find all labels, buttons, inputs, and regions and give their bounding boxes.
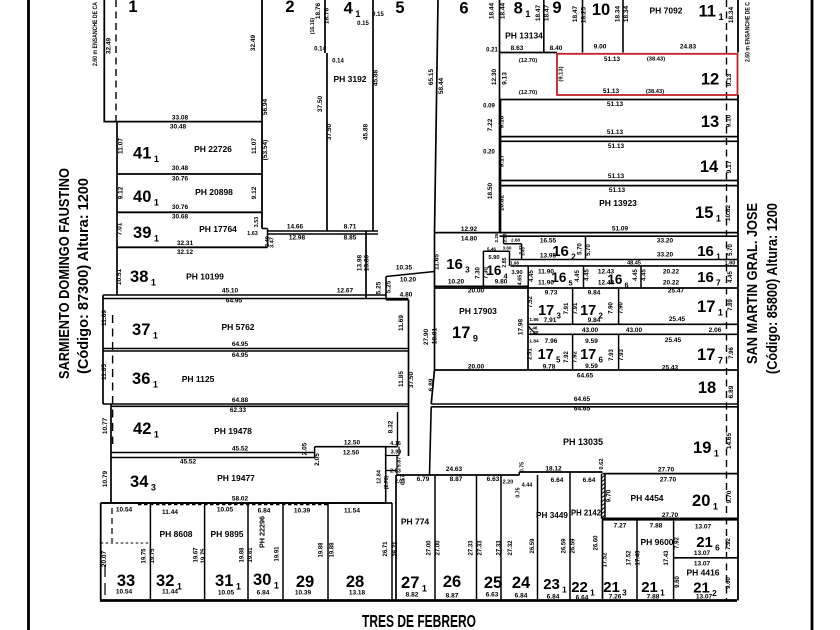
svg-text:13.07: 13.07 [695, 524, 712, 531]
svg-text:0.62: 0.62 [599, 458, 605, 469]
svg-text:5.70: 5.70 [586, 244, 592, 256]
svg-text:7.30: 7.30 [484, 267, 490, 279]
svg-text:(38.43): (38.43) [646, 89, 664, 95]
svg-text:43.00: 43.00 [582, 327, 599, 334]
svg-text:PH 13035: PH 13035 [563, 437, 603, 447]
svg-text:6.64: 6.64 [551, 477, 564, 484]
svg-text:10.77: 10.77 [102, 417, 109, 434]
svg-text:6.63: 6.63 [487, 476, 500, 483]
svg-text:PH 10199: PH 10199 [186, 272, 224, 282]
svg-text:32.49: 32.49 [250, 34, 257, 51]
svg-text:11.85: 11.85 [398, 371, 405, 387]
svg-text:5.90: 5.90 [488, 255, 499, 261]
svg-text:7.96: 7.96 [729, 347, 735, 359]
svg-text:2.83: 2.83 [390, 469, 401, 475]
svg-text:26.71: 26.71 [393, 541, 399, 557]
svg-text:2.06: 2.06 [709, 327, 722, 334]
svg-text:20.00: 20.00 [468, 288, 485, 295]
svg-text:4.45: 4.45 [575, 270, 581, 282]
svg-text:12.50: 12.50 [343, 450, 360, 457]
svg-text:12.67: 12.67 [337, 288, 354, 295]
svg-text:27.33: 27.33 [497, 540, 503, 556]
svg-text:18: 18 [698, 379, 716, 397]
svg-text:8.71: 8.71 [344, 224, 357, 231]
svg-text:62.33: 62.33 [230, 407, 247, 414]
svg-text:PH 22726: PH 22726 [194, 144, 232, 154]
svg-text:9: 9 [552, 0, 561, 17]
svg-text:7.89: 7.89 [728, 299, 734, 311]
svg-text:12.84: 12.84 [377, 469, 383, 484]
svg-text:18.44: 18.44 [500, 2, 507, 19]
svg-text:27.70: 27.70 [662, 512, 679, 519]
svg-text:PH 5762: PH 5762 [221, 322, 254, 332]
svg-text:30.76: 30.76 [172, 204, 189, 211]
svg-text:7.92: 7.92 [726, 538, 732, 550]
svg-text:3.47: 3.47 [270, 237, 276, 248]
svg-text:17.43: 17.43 [636, 550, 642, 566]
svg-text:19.75: 19.75 [142, 548, 148, 564]
svg-text:30.48: 30.48 [172, 165, 189, 172]
svg-text:13.98: 13.98 [357, 254, 364, 271]
svg-text:27.00: 27.00 [436, 540, 442, 556]
svg-text:6: 6 [459, 0, 468, 18]
svg-text:13.07: 13.07 [694, 561, 711, 568]
svg-text:11.69: 11.69 [398, 315, 405, 331]
svg-text:2.20: 2.20 [503, 480, 514, 486]
svg-text:8.82: 8.82 [406, 592, 419, 599]
svg-text:19.88: 19.88 [330, 542, 336, 558]
svg-text:7.22: 7.22 [487, 118, 494, 131]
svg-text:18.44: 18.44 [489, 2, 496, 19]
svg-text:19.67: 19.67 [194, 547, 200, 563]
svg-text:(12.70): (12.70) [519, 90, 537, 96]
svg-text:20.22: 20.22 [663, 280, 680, 287]
svg-text:51.13: 51.13 [609, 187, 626, 194]
svg-text:6.63: 6.63 [486, 592, 499, 599]
svg-text:32.12: 32.12 [177, 249, 194, 256]
svg-text:PH 19478: PH 19478 [214, 426, 252, 436]
svg-text:PH 17903: PH 17903 [459, 306, 497, 316]
svg-text:26: 26 [443, 573, 461, 591]
svg-text:9.73: 9.73 [545, 290, 558, 297]
svg-text:10.51: 10.51 [116, 268, 123, 285]
svg-text:9.70: 9.70 [606, 489, 613, 502]
svg-text:(9.13): (9.13) [559, 66, 565, 81]
svg-text:9.12: 9.12 [118, 186, 125, 199]
svg-text:4.16: 4.16 [390, 441, 401, 447]
svg-text:12: 12 [701, 71, 719, 89]
svg-text:9.10: 9.10 [499, 115, 506, 128]
svg-text:6.84: 6.84 [258, 508, 271, 515]
svg-text:7.90: 7.90 [609, 302, 615, 314]
svg-text:26.71: 26.71 [383, 541, 389, 557]
svg-text:33: 33 [117, 572, 135, 590]
svg-text:13.07: 13.07 [694, 550, 711, 557]
svg-text:2: 2 [285, 0, 294, 16]
svg-text:8.32: 8.32 [388, 420, 395, 433]
svg-text:3.53: 3.53 [254, 217, 260, 228]
svg-text:7.52: 7.52 [528, 296, 534, 308]
svg-text:PH 13923: PH 13923 [599, 198, 637, 208]
svg-text:10.82: 10.82 [725, 204, 732, 221]
svg-text:6.84: 6.84 [547, 594, 560, 601]
svg-text:0.14: 0.14 [314, 47, 326, 53]
svg-text:8.85: 8.85 [344, 235, 357, 242]
svg-text:25.45: 25.45 [665, 337, 682, 344]
svg-text:SARMIENTO DOMINGO FAUSTINO: SARMIENTO DOMINGO FAUSTINO [57, 168, 73, 379]
svg-text:PH 17764: PH 17764 [199, 224, 237, 234]
svg-text:45.52: 45.52 [232, 446, 249, 453]
svg-text:11.07: 11.07 [118, 138, 125, 154]
svg-text:19.81: 19.81 [248, 547, 254, 563]
svg-text:11.07: 11.07 [251, 138, 258, 154]
svg-text:25.47: 25.47 [668, 288, 685, 295]
svg-text:PH 9895: PH 9895 [210, 529, 243, 539]
svg-text:45.52: 45.52 [180, 459, 197, 466]
svg-text:24.83: 24.83 [680, 44, 697, 51]
svg-text:PH 774: PH 774 [401, 517, 430, 527]
svg-text:PH 7092: PH 7092 [649, 6, 682, 16]
svg-text:9.80: 9.80 [495, 279, 508, 286]
svg-text:51.13: 51.13 [608, 143, 625, 150]
svg-text:4.45: 4.45 [633, 269, 639, 281]
svg-text:5: 5 [395, 0, 404, 17]
svg-text:6.89: 6.89 [728, 385, 735, 398]
svg-text:18.34: 18.34 [728, 6, 735, 23]
svg-text:4.65: 4.65 [518, 275, 524, 286]
svg-text:(12.70): (12.70) [519, 58, 537, 64]
svg-text:27.70: 27.70 [658, 467, 675, 474]
svg-text:10.35: 10.35 [396, 265, 413, 272]
svg-text:51.13: 51.13 [607, 129, 624, 136]
svg-text:0.57: 0.57 [401, 475, 407, 485]
svg-text:19.88: 19.88 [240, 547, 246, 563]
svg-text:7.93: 7.93 [609, 349, 615, 361]
svg-text:10.79: 10.79 [102, 470, 109, 487]
svg-text:2.60 m ENSANCHE DE CA: 2.60 m ENSANCHE DE CA [92, 2, 99, 66]
svg-text:PH 3449: PH 3449 [536, 510, 568, 520]
svg-text:(38.43): (38.43) [647, 57, 665, 63]
svg-text:30.68: 30.68 [172, 214, 189, 221]
svg-text:8.63: 8.63 [511, 45, 524, 52]
svg-text:27.33: 27.33 [469, 540, 475, 556]
svg-text:9.13: 9.13 [502, 72, 509, 85]
svg-text:8.40: 8.40 [550, 45, 563, 52]
svg-text:PH 2142: PH 2142 [571, 508, 601, 518]
svg-text:58.44: 58.44 [438, 77, 445, 94]
svg-text:58.02: 58.02 [232, 496, 249, 503]
svg-text:45.88: 45.88 [373, 69, 380, 86]
svg-text:11.54: 11.54 [344, 508, 360, 515]
svg-text:0.15: 0.15 [372, 12, 384, 18]
svg-text:11.85: 11.85 [101, 364, 108, 380]
svg-text:PH 3192: PH 3192 [333, 74, 366, 84]
svg-text:1: 1 [128, 0, 137, 16]
svg-text:9.59: 9.59 [585, 338, 598, 345]
svg-text:64.65: 64.65 [574, 396, 591, 403]
svg-text:7.93: 7.93 [619, 349, 625, 361]
svg-text:9.70: 9.70 [726, 490, 733, 503]
svg-text:7.96: 7.96 [545, 338, 558, 345]
svg-text:9.00: 9.00 [594, 44, 607, 51]
svg-text:7.27: 7.27 [614, 523, 627, 530]
svg-text:(Código: 85800) Altura: 1200: (Código: 85800) Altura: 1200 [765, 203, 781, 374]
svg-text:26.59: 26.59 [562, 538, 568, 554]
svg-text:5.87: 5.87 [397, 457, 403, 468]
svg-text:12.30: 12.30 [491, 68, 498, 85]
svg-text:18.34: 18.34 [615, 5, 622, 22]
svg-text:18.50: 18.50 [487, 182, 494, 199]
svg-text:3.99: 3.99 [391, 450, 402, 456]
svg-text:(53.54): (53.54) [262, 140, 269, 161]
svg-text:4.44: 4.44 [522, 483, 534, 489]
svg-text:18.47: 18.47 [572, 5, 579, 22]
svg-text:9.17: 9.17 [726, 160, 733, 173]
svg-text:7.01: 7.01 [117, 222, 124, 235]
svg-text:33.20: 33.20 [657, 238, 674, 245]
svg-text:12.43: 12.43 [598, 280, 615, 287]
svg-text:10.39: 10.39 [294, 508, 311, 515]
svg-text:4.80: 4.80 [400, 292, 413, 299]
svg-text:30.48: 30.48 [170, 124, 187, 131]
svg-text:13.07: 13.07 [696, 594, 713, 601]
svg-text:11.65: 11.65 [434, 254, 441, 270]
svg-text:7.30: 7.30 [476, 267, 482, 279]
svg-text:13.80: 13.80 [364, 254, 371, 271]
svg-text:37.50: 37.50 [317, 95, 324, 112]
svg-text:18.12: 18.12 [545, 466, 562, 473]
svg-text:51.09: 51.09 [612, 226, 629, 233]
svg-text:0.75: 0.75 [520, 462, 526, 472]
svg-text:17.52: 17.52 [603, 552, 609, 568]
svg-text:9.17: 9.17 [499, 154, 506, 167]
svg-text:7.88: 7.88 [650, 523, 663, 530]
svg-text:1.84: 1.84 [529, 339, 539, 345]
svg-text:7.91: 7.91 [564, 302, 570, 314]
svg-text:4.45: 4.45 [728, 271, 734, 283]
svg-text:27.70: 27.70 [660, 477, 677, 484]
svg-text:1.86: 1.86 [529, 317, 539, 323]
svg-text:17.52: 17.52 [627, 550, 633, 566]
svg-text:9.84: 9.84 [588, 317, 601, 324]
svg-text:6.84: 6.84 [515, 593, 528, 600]
svg-text:(2.76): (2.76) [384, 475, 390, 489]
svg-text:32.31: 32.31 [177, 240, 194, 247]
svg-text:64.65: 64.65 [574, 406, 591, 413]
svg-text:10.05: 10.05 [218, 590, 235, 597]
svg-text:65.15: 65.15 [428, 68, 435, 85]
svg-text:10.20: 10.20 [448, 279, 465, 286]
svg-text:7.88: 7.88 [647, 594, 660, 601]
svg-text:1.98: 1.98 [510, 260, 519, 265]
svg-text:64.88: 64.88 [232, 397, 249, 404]
svg-text:2.60 m ENSANCHE DE C: 2.60 m ENSANCHE DE C [745, 2, 752, 62]
svg-text:27.00: 27.00 [427, 540, 433, 556]
svg-text:9.84: 9.84 [588, 290, 601, 297]
svg-text:17.98: 17.98 [518, 318, 525, 335]
svg-text:0.75: 0.75 [516, 487, 522, 497]
svg-text:13.95: 13.95 [540, 253, 557, 260]
svg-text:64.95: 64.95 [232, 352, 249, 359]
svg-text:2.20: 2.20 [503, 233, 508, 242]
svg-text:8.87: 8.87 [446, 593, 459, 600]
svg-text:51.13: 51.13 [604, 56, 621, 63]
svg-text:51.13: 51.13 [608, 173, 625, 180]
svg-text:9.13: 9.13 [726, 73, 733, 86]
svg-text:25: 25 [484, 574, 502, 592]
svg-text:TRES DE FEBRERO: TRES DE FEBRERO [362, 611, 476, 630]
svg-text:5.46: 5.46 [487, 247, 496, 252]
svg-text:18.76: 18.76 [315, 2, 322, 19]
svg-text:0.20: 0.20 [483, 150, 495, 156]
svg-text:28: 28 [346, 573, 364, 591]
svg-text:8.87: 8.87 [450, 476, 463, 483]
svg-text:0.21: 0.21 [486, 48, 498, 54]
svg-text:11.69: 11.69 [101, 310, 108, 326]
svg-text:5.25: 5.25 [386, 280, 393, 293]
svg-text:PH 13134: PH 13134 [505, 31, 543, 41]
svg-text:6.79: 6.79 [417, 476, 430, 483]
svg-text:37.50: 37.50 [326, 123, 333, 140]
svg-text:14.80: 14.80 [461, 236, 478, 243]
svg-text:12.92: 12.92 [461, 226, 478, 233]
svg-text:2.05: 2.05 [302, 442, 309, 455]
svg-text:7.26: 7.26 [609, 594, 622, 601]
svg-text:51.13: 51.13 [607, 101, 624, 108]
svg-text:11.44: 11.44 [162, 509, 178, 516]
svg-text:14: 14 [700, 158, 719, 176]
svg-text:64.65: 64.65 [577, 373, 594, 380]
svg-text:7.92: 7.92 [675, 537, 681, 549]
svg-text:7.92: 7.92 [564, 351, 570, 363]
svg-text:1.60: 1.60 [725, 261, 736, 267]
svg-text:SAN MARTIN GRAL. JOSE: SAN MARTIN GRAL. JOSE [745, 203, 761, 364]
svg-text:12.50: 12.50 [344, 440, 361, 447]
svg-text:PH 1125: PH 1125 [182, 374, 215, 384]
svg-text:14.65: 14.65 [726, 432, 733, 449]
svg-text:24: 24 [512, 574, 531, 592]
svg-text:9.10: 9.10 [726, 114, 733, 127]
svg-text:25.45: 25.45 [669, 316, 686, 323]
svg-text:56.94: 56.94 [262, 98, 269, 115]
svg-text:30.76: 30.76 [172, 176, 189, 183]
svg-text:6.84: 6.84 [257, 590, 270, 597]
svg-text:2.25: 2.25 [494, 233, 499, 242]
svg-text:20.07: 20.07 [101, 550, 108, 567]
svg-text:10.82: 10.82 [499, 194, 506, 211]
svg-text:3.43: 3.43 [521, 247, 526, 256]
svg-text:1.63: 1.63 [247, 231, 258, 237]
svg-text:9.60: 9.60 [675, 576, 681, 588]
svg-text:10.20: 10.20 [400, 277, 417, 284]
svg-text:2.51: 2.51 [528, 348, 534, 360]
svg-text:10.54: 10.54 [116, 507, 133, 514]
svg-text:PH 19477: PH 19477 [217, 473, 255, 483]
svg-text:19.91: 19.91 [275, 546, 281, 562]
svg-text:18.47: 18.47 [535, 4, 542, 21]
svg-text:18.76: 18.76 [324, 7, 331, 24]
svg-text:48.45: 48.45 [627, 261, 641, 267]
svg-text:PH 9600: PH 9600 [640, 537, 673, 547]
svg-text:33.08: 33.08 [172, 115, 189, 122]
svg-text:7.91: 7.91 [544, 317, 557, 324]
svg-text:2.68: 2.68 [511, 238, 520, 243]
svg-text:9.12: 9.12 [251, 186, 258, 199]
svg-text:29: 29 [296, 573, 314, 591]
svg-text:13: 13 [701, 113, 719, 131]
svg-text:51.13: 51.13 [603, 88, 620, 95]
svg-text:(16.16): (16.16) [310, 18, 316, 35]
svg-text:2.85: 2.85 [502, 257, 508, 267]
svg-text:4.45: 4.45 [585, 269, 591, 281]
svg-text:5.25: 5.25 [376, 281, 383, 294]
svg-text:7.92: 7.92 [573, 351, 579, 363]
svg-text:27.90: 27.90 [423, 328, 430, 345]
svg-text:0.09: 0.09 [483, 104, 495, 110]
svg-text:PH 20898: PH 20898 [195, 187, 233, 197]
svg-text:18.34: 18.34 [623, 5, 630, 22]
svg-text:4.45: 4.45 [642, 269, 648, 281]
svg-text:26.59: 26.59 [530, 538, 536, 554]
svg-text:PH 22296: PH 22296 [260, 516, 267, 548]
svg-text:19.88: 19.88 [319, 542, 325, 558]
svg-text:4.45: 4.45 [529, 270, 535, 282]
svg-text:(Código: 87300) Altura: 1200: (Código: 87300) Altura: 1200 [76, 178, 92, 374]
svg-text:33.20: 33.20 [657, 252, 674, 259]
svg-text:7.91: 7.91 [573, 302, 579, 314]
svg-text:10.05: 10.05 [217, 507, 234, 514]
svg-text:5.70: 5.70 [578, 243, 584, 255]
svg-text:6.64: 6.64 [583, 477, 596, 484]
svg-text:5.70: 5.70 [728, 244, 734, 256]
svg-text:9.60: 9.60 [726, 577, 732, 589]
svg-text:9.59: 9.59 [585, 363, 598, 370]
svg-text:12.98: 12.98 [289, 235, 306, 242]
svg-text:45.88: 45.88 [363, 123, 370, 140]
svg-text:19.75: 19.75 [150, 548, 156, 564]
svg-text:PH 8608: PH 8608 [159, 529, 192, 539]
svg-text:18.01: 18.01 [432, 327, 439, 344]
svg-text:11.90: 11.90 [538, 280, 554, 287]
svg-text:17.43: 17.43 [664, 550, 670, 566]
svg-text:10: 10 [592, 1, 610, 19]
svg-text:26.59: 26.59 [571, 538, 577, 554]
svg-text:18.25: 18.25 [581, 6, 588, 23]
svg-text:0.15: 0.15 [357, 21, 369, 27]
svg-text:3.60: 3.60 [503, 246, 512, 251]
svg-text:19.75: 19.75 [201, 548, 207, 564]
svg-text:20.22: 20.22 [663, 269, 680, 276]
svg-text:26.60: 26.60 [594, 535, 600, 551]
svg-text:27.32: 27.32 [508, 540, 514, 556]
svg-text:PH 4416: PH 4416 [686, 568, 719, 578]
svg-text:45.10: 45.10 [222, 288, 239, 295]
svg-text:24.63: 24.63 [446, 466, 463, 473]
svg-text:27.33: 27.33 [478, 540, 484, 556]
svg-text:14.66: 14.66 [287, 224, 304, 231]
svg-text:32.49: 32.49 [106, 37, 113, 54]
svg-text:64.95: 64.95 [232, 341, 249, 348]
svg-text:0.14: 0.14 [332, 59, 344, 65]
svg-text:PH 4454: PH 4454 [630, 493, 663, 503]
svg-text:43.00: 43.00 [626, 327, 643, 334]
svg-text:64.95: 64.95 [226, 298, 243, 305]
svg-text:7.90: 7.90 [619, 302, 625, 314]
